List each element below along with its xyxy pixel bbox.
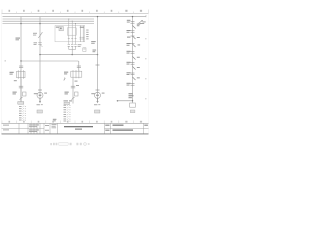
bus L2 — [3, 18, 95, 20]
motor M1 earth arrow — [39, 98, 41, 103]
switch S5 — [133, 57, 140, 60]
wire below K1 — [14, 79, 21, 102]
motor M2 tick — [96, 89, 100, 91]
box label — [56, 27, 60, 28]
label branch4 — [93, 50, 97, 53]
title block vertical dividers — [19, 123, 144, 133]
title text — [64, 126, 93, 130]
control fuse F3 — [127, 20, 135, 23]
control circuit vertical wire — [132, 16, 133, 103]
column reference ticks bottom — [2, 121, 133, 124]
right pole pair in U1 — [68, 26, 85, 42]
cable marker branch2 — [64, 97, 75, 101]
small aux box below assembly — [83, 48, 86, 52]
contact tick branch4 — [96, 64, 100, 66]
breaker Q1 lower element — [34, 42, 43, 47]
column reference numbers top — [9, 10, 143, 12]
pole join bus below contacts — [69, 46, 76, 49]
contactor K1 box — [10, 70, 26, 79]
contactor K2 box — [64, 70, 82, 78]
logo box inside U1 — [59, 27, 63, 31]
contact K1 NO — [19, 66, 23, 68]
node H1 distribution wire — [39, 50, 98, 56]
motor M2 — [91, 92, 104, 98]
node H3 wire — [117, 100, 134, 102]
motor M2 earth arrow — [96, 98, 98, 103]
contact set below inner box — [68, 45, 77, 47]
bus N — [3, 23, 95, 25]
switch S1 — [133, 24, 141, 29]
contact S6 — [127, 62, 135, 65]
column reference ticks top — [2, 10, 149, 14]
sheet left border — [1, 13, 3, 134]
coil K1 — [130, 103, 136, 107]
wire branch1 vertical — [20, 17, 22, 102]
switch S9 — [133, 77, 140, 80]
switch S4 — [127, 43, 141, 47]
label above node — [129, 93, 134, 98]
right pole pair label — [80, 27, 84, 28]
terminal strip X1 label box — [18, 102, 24, 105]
viewer toolbar icons — [50, 142, 89, 145]
wire tag text below contacts — [78, 44, 82, 47]
overload F2 — [65, 85, 80, 96]
terminal marks right of U1 — [86, 30, 96, 44]
row reference letters left — [5, 60, 7, 62]
motor M1 tick — [38, 89, 42, 91]
node H2 distribution wire — [20, 60, 79, 71]
title block horizontal dividers — [2, 127, 149, 129]
wire branch4 vertical (motor M2 feeder) — [97, 16, 98, 101]
label under M2 — [94, 103, 100, 106]
title block frame — [2, 123, 149, 133]
contactor K2 branch chain — [77, 66, 81, 68]
switch S3 — [127, 36, 140, 39]
wire below K2 — [73, 78, 78, 103]
title block small text cells — [3, 124, 57, 132]
contact S2 — [127, 30, 135, 33]
contact S10 — [127, 83, 135, 86]
label under M1 — [37, 103, 43, 106]
terminal strip X2 label box — [64, 102, 70, 104]
cable marker branch1 — [20, 97, 23, 100]
assembly box U1 outline — [55, 26, 85, 42]
sheet right border — [148, 13, 150, 134]
cable tag W3 — [53, 119, 57, 122]
wire branch3 vertical (motor M1 feeder) — [39, 17, 41, 101]
breaker Q1 — [33, 32, 43, 38]
label branch1 — [16, 38, 21, 41]
sheet top frame border — [2, 12, 149, 14]
inner device box — [67, 28, 76, 35]
branch tap with arrow — [63, 77, 65, 80]
bus L1 — [3, 15, 147, 17]
sheet reference arrow — [139, 20, 146, 24]
motor M1 — [34, 92, 47, 98]
contact K1 aux — [127, 51, 135, 54]
gray tag under M1 — [37, 110, 42, 113]
switch S7 — [133, 67, 140, 70]
terminal rows X2 — [64, 105, 71, 122]
bus L3 — [3, 20, 95, 22]
terminal rows X1 — [19, 106, 26, 121]
pole wires through inner box — [68, 18, 76, 44]
column reference numbers bottom — [9, 121, 143, 123]
overload F1 — [13, 86, 27, 96]
gray tag under M2 — [95, 110, 100, 113]
contact S8 — [127, 72, 135, 75]
gray tag under coil — [130, 110, 135, 113]
title block right text — [105, 125, 148, 131]
